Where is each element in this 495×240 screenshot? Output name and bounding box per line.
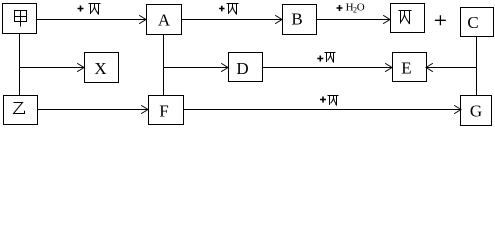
svg-text:A: A	[158, 11, 171, 30]
svg-text:B: B	[291, 10, 302, 29]
svg-text:O: O	[357, 2, 365, 14]
svg-text:D: D	[236, 59, 248, 78]
svg-text:F: F	[159, 102, 168, 121]
svg-text:C: C	[467, 13, 478, 32]
svg-text:X: X	[94, 59, 106, 78]
svg-text:G: G	[470, 102, 482, 121]
svg-text:E: E	[401, 59, 411, 78]
